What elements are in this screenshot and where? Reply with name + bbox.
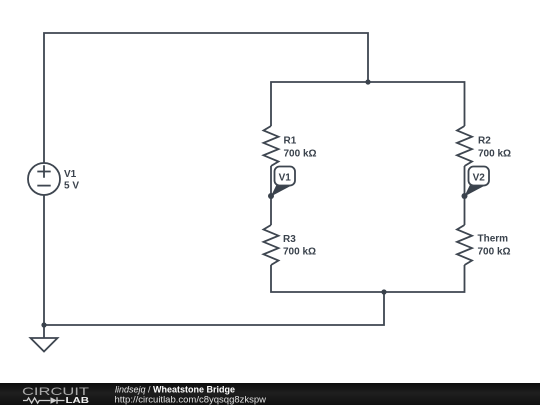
svg-text:R1: R1	[284, 136, 297, 147]
probe flag V2	[462, 167, 490, 200]
logo resistor squiggle	[23, 398, 50, 403]
wire: bottom return to V1	[44, 195, 384, 325]
svg-text:lindsejq / Wheatstone Bridge: lindsejq / Wheatstone Bridge	[115, 385, 235, 395]
resistor R3	[264, 225, 279, 265]
thermistor Therm	[457, 225, 472, 265]
node: bottom junction	[381, 289, 386, 294]
svg-text:V2: V2	[473, 173, 486, 184]
svg-text:http://circuitlab.com/c8yqsqg8: http://circuitlab.com/c8yqsqg8zkspw	[115, 394, 267, 405]
wire: bridge top rail	[271, 82, 465, 126]
svg-text:V1: V1	[64, 169, 77, 180]
svg-text:5 V: 5 V	[64, 181, 79, 192]
wire: top loop from V1 top to top junction	[44, 33, 368, 163]
svg-text:R3: R3	[283, 234, 296, 245]
wire: bridge bottom rail	[271, 265, 465, 292]
wire: right branch mid segment	[464, 166, 466, 225]
wire: ground stub	[43, 325, 45, 338]
svg-text:700 kΩ: 700 kΩ	[478, 247, 511, 258]
probe flag V1	[268, 167, 295, 200]
logo diode	[51, 397, 58, 403]
svg-text:700 kΩ: 700 kΩ	[283, 247, 316, 258]
wire: left branch mid segment	[270, 166, 272, 225]
ground	[31, 338, 58, 352]
svg-text:700 kΩ: 700 kΩ	[284, 149, 317, 160]
svg-text:Therm: Therm	[478, 234, 509, 245]
svg-text:R2: R2	[478, 136, 491, 147]
resistor R2	[457, 126, 472, 166]
node: ground junction	[41, 322, 46, 327]
resistor R1	[264, 126, 279, 166]
svg-text:LAB: LAB	[66, 396, 90, 405]
voltage source V1	[28, 163, 60, 195]
svg-text:700 kΩ: 700 kΩ	[478, 149, 511, 160]
svg-text:V1: V1	[279, 173, 292, 184]
node: top junction	[365, 79, 370, 84]
